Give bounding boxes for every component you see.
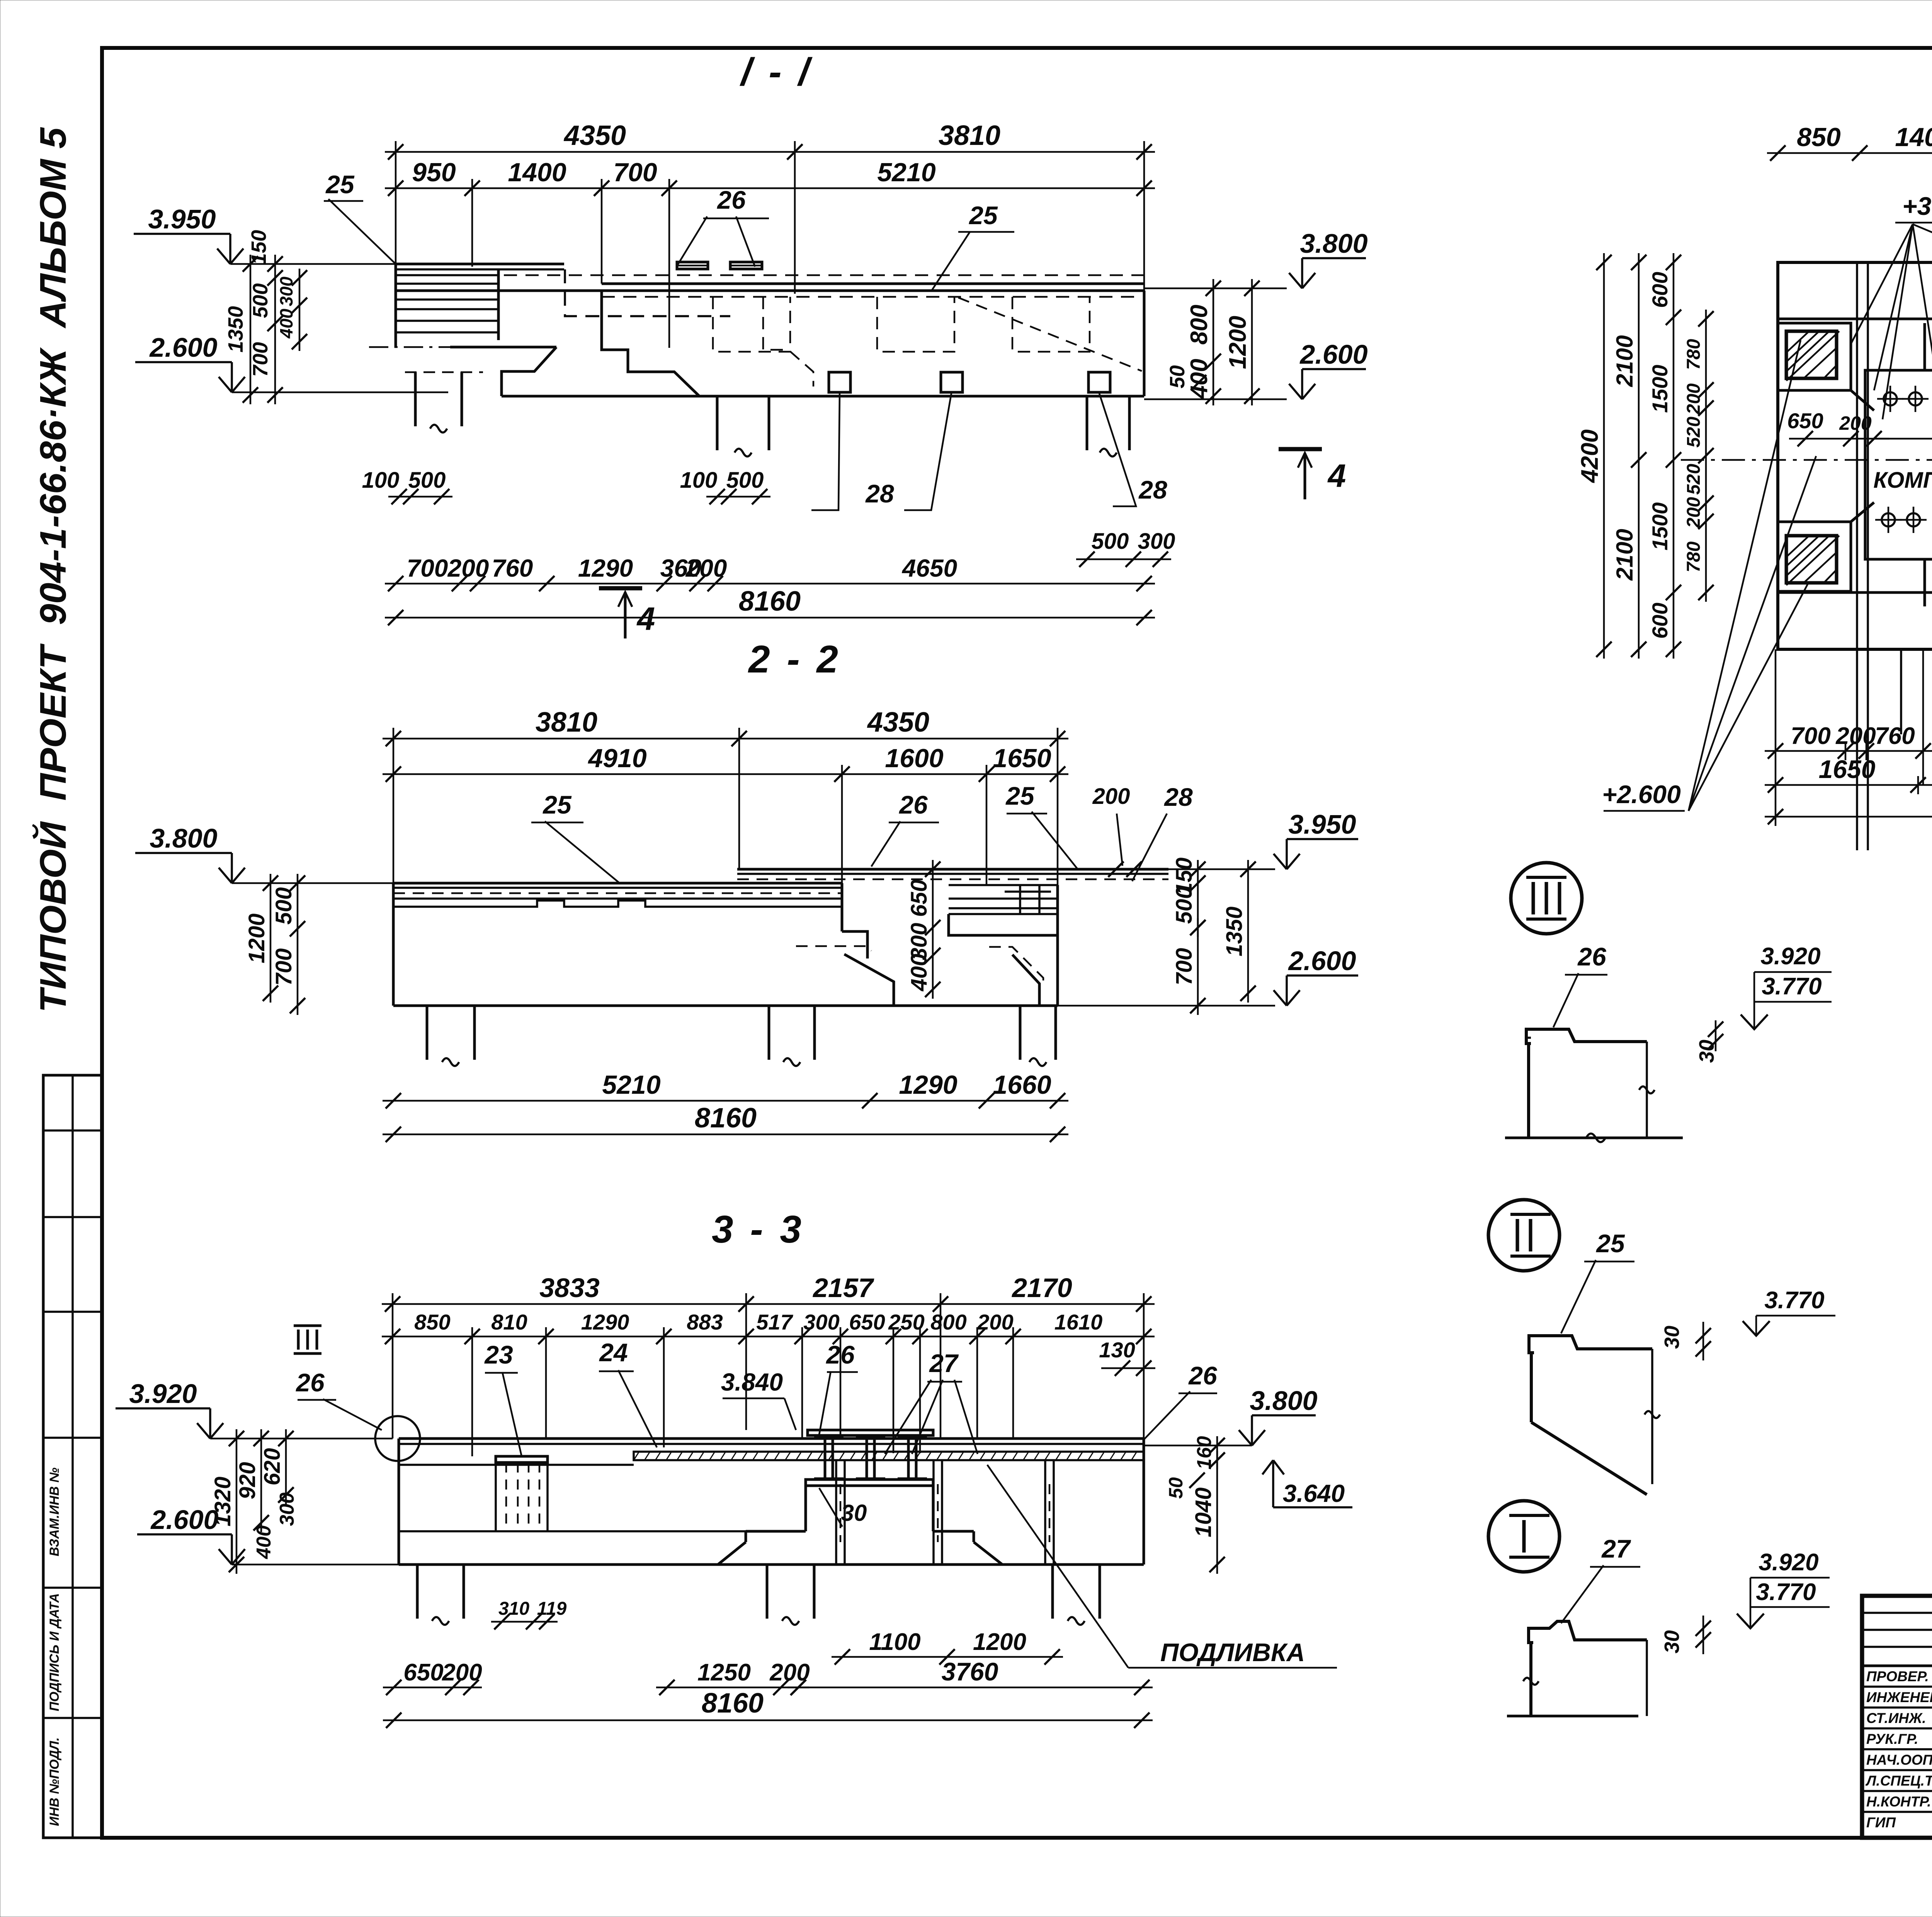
svg-text:780: 780: [1684, 339, 1704, 370]
section 1-1 vdim left 150/500/700: [274, 255, 276, 404]
section 2-2 left vdim 1200: [270, 874, 272, 1003]
svg-text:25: 25: [968, 201, 998, 230]
svg-text:26: 26: [1188, 1361, 1218, 1390]
svg-text:24: 24: [599, 1338, 628, 1367]
section 2-2 leg left: [426, 1006, 429, 1060]
section 1-1 cut mark 4 left: [599, 586, 642, 591]
svg-text:100: 100: [362, 468, 400, 493]
section 2-2 left slab top b: [393, 887, 842, 889]
svg-text:150: 150: [247, 230, 270, 265]
svg-text:1200: 1200: [973, 1629, 1026, 1655]
svg-text:300: 300: [276, 1493, 298, 1526]
svg-text:620: 620: [260, 1448, 285, 1486]
section 4-4 left vdim 4200: [1603, 253, 1605, 659]
section 4-4 top dim row A: [1767, 152, 1932, 154]
svg-text:520: 520: [1684, 464, 1704, 495]
svg-text:700: 700: [1791, 723, 1830, 749]
svg-text:1290: 1290: [581, 1310, 629, 1334]
section 3-3 ext lines: [392, 1293, 394, 1439]
detail III right vertical: [1646, 1042, 1648, 1138]
svg-text:400: 400: [253, 1525, 275, 1559]
detail I profile: [1529, 1621, 1647, 1643]
section 2-2 ext right: [1057, 728, 1059, 885]
svg-text:23: 23: [484, 1340, 513, 1369]
section 1-1 dim row 950/1400/700/5210: [385, 187, 1155, 189]
svg-text:25: 25: [542, 790, 572, 819]
section 2-2 center pier chamfer solid: [844, 954, 894, 1006]
svg-text:ГИП: ГИП: [1866, 1815, 1896, 1830]
svg-text:25: 25: [325, 170, 355, 199]
section 3-3 dim row 1250/200: [656, 1687, 809, 1689]
svg-text:Л.СПЕЦ.Т.О: Л.СПЕЦ.Т.О: [1865, 1773, 1932, 1789]
section 2-2 right chamfer solid: [1012, 955, 1039, 1006]
svg-text:3.770: 3.770: [1756, 1579, 1816, 1605]
section 2-2 left block interior line: [393, 901, 842, 907]
section 2-2 right level line: [1168, 868, 1275, 870]
svg-text:3810: 3810: [536, 707, 597, 738]
section 3-3 dim row 3760: [787, 1687, 1153, 1689]
svg-text:200: 200: [1684, 497, 1704, 528]
section 2-2 right vdim 700: [1197, 918, 1199, 1015]
detail II profile left slope: [1530, 1353, 1533, 1422]
section 1-1 slab line 734: [602, 283, 1144, 285]
section 2-2 right slab top b: [737, 873, 1168, 875]
section 1-1 ext line 1557: [601, 179, 603, 284]
section 2-2 right slab dashed: [737, 878, 1168, 880]
svg-text:200: 200: [977, 1310, 1013, 1334]
section 4-4 left vdim 2100/2100: [1638, 253, 1640, 659]
title block signature row line 7: [1862, 1811, 1932, 1813]
section 2-2 right block slab pad lines: [949, 884, 1058, 886]
svg-text:650: 650: [1787, 409, 1823, 433]
section 2-2 right block outline: [949, 914, 1058, 935]
svg-text:3760: 3760: [942, 1657, 998, 1686]
title block outer box: [1862, 1596, 1932, 1838]
svg-text:1200: 1200: [1225, 316, 1251, 369]
left margin strip row line 6: [43, 1717, 102, 1719]
left margin stamp strip outer: [43, 1075, 102, 1838]
section 1-1 pier hatch line 3: [396, 289, 498, 292]
section 3-3 level 3.920 left: [197, 1423, 210, 1439]
svg-text:1610: 1610: [1054, 1310, 1103, 1334]
section 3-3 right edge: [1143, 1439, 1145, 1565]
section 3-3 I-beams: [814, 1435, 844, 1438]
svg-text:517: 517: [756, 1310, 793, 1334]
svg-text:26: 26: [716, 186, 746, 214]
svg-text:1290: 1290: [899, 1070, 957, 1100]
svg-text:1350: 1350: [1222, 906, 1247, 956]
svg-text:ИНВ №ПОДЛ.: ИНВ №ПОДЛ.: [47, 1737, 62, 1826]
section 1-1 vdim left 1350: [250, 255, 252, 404]
section 1-1 vdim right 1200: [1251, 279, 1253, 405]
section 2-2 ext 1913: [738, 728, 740, 869]
svg-text:3.640: 3.640: [1283, 1479, 1345, 1507]
section 1-1 pier dashdot base: [369, 346, 450, 348]
section 1-1 pier hatch line 5: [396, 308, 498, 310]
section 4-4 bolt circle 3: [1882, 513, 1895, 526]
section 2-2 right vdim 1350: [1247, 860, 1249, 1003]
svg-text:883: 883: [687, 1310, 723, 1334]
svg-text:1320: 1320: [210, 1476, 235, 1526]
section 2-2 left slab line c: [393, 897, 842, 900]
svg-text:28: 28: [1138, 475, 1167, 504]
section 2-2 left block left edge: [392, 883, 395, 1006]
svg-text:300: 300: [803, 1310, 839, 1334]
section 4-4 +2.600 leaders: [1689, 583, 1808, 811]
svg-text:310: 310: [498, 1599, 529, 1619]
svg-text:5210: 5210: [877, 158, 935, 187]
section 1-1 ext line 1732: [668, 179, 670, 348]
svg-text:100: 100: [680, 468, 718, 493]
section 2-2 left level line: [232, 882, 393, 884]
section 2-2 left block inner vertical: [841, 883, 844, 931]
svg-text:4350: 4350: [867, 707, 929, 738]
section 2-2 ext left: [393, 728, 395, 883]
section 3-3 right vdim 1040: [1216, 1451, 1218, 1574]
section 1-1 vdim right 800/400: [1213, 279, 1214, 405]
section 1-1 ext line left: [395, 141, 397, 264]
svg-text:1400: 1400: [508, 158, 566, 187]
svg-text:1600: 1600: [885, 744, 943, 773]
svg-text:4650: 4650: [901, 554, 957, 582]
section 3-3 small dim 310/119: [491, 1621, 558, 1623]
svg-text:2170: 2170: [1011, 1273, 1072, 1303]
svg-text:РУК.ГР.: РУК.ГР.: [1866, 1731, 1918, 1747]
detail I left edge: [1529, 1643, 1532, 1716]
svg-text:Н.КОНТР.: Н.КОНТР.: [1866, 1794, 1931, 1810]
section 2-2 bottom line: [393, 1004, 1058, 1007]
svg-text:700: 700: [1172, 948, 1197, 986]
svg-text:1350: 1350: [224, 306, 247, 352]
section 2-2 left level 3.800: [219, 868, 232, 883]
svg-text:2 - 2: 2 - 2: [748, 638, 841, 681]
svg-text:850: 850: [1797, 123, 1841, 152]
section 4-4 bottom dim row C: [1765, 816, 1932, 818]
section 3-3 leg mid: [766, 1565, 769, 1619]
svg-text:200: 200: [1839, 412, 1872, 434]
section 3-3 under-slab line: [399, 1464, 634, 1466]
section 2-2 right vdim 150/500: [1197, 860, 1199, 937]
svg-text:ПРОВЕР.: ПРОВЕР.: [1866, 1668, 1929, 1684]
section 4-4 bolt circle 1: [1884, 392, 1897, 405]
svg-text:28: 28: [1163, 783, 1193, 811]
title block signature row line 4: [1862, 1748, 1932, 1750]
section 2-2 bottom dim row A: [383, 1100, 1068, 1102]
section 4-4 pocket TL: [1778, 323, 1851, 390]
section 4-4 ext lines bottom: [1775, 649, 1777, 826]
svg-text:3.840: 3.840: [721, 1368, 783, 1396]
section 1-1 leg right: [1086, 396, 1088, 450]
section 1-1 cut mark 4 right: [1279, 447, 1322, 451]
svg-text:2157: 2157: [812, 1273, 874, 1303]
section 3-3 left pier sides: [495, 1462, 497, 1531]
section 1-1 ext line mid: [794, 141, 796, 294]
section 1-1 ext line 1222: [471, 179, 473, 267]
section 4-4 pocket BL: [1778, 522, 1851, 591]
section 1-1 anchor square 2: [941, 372, 963, 392]
section 3-3 dim row 8160: [383, 1720, 1153, 1721]
section 1-1 dashed pocket 1: [713, 297, 790, 352]
svg-text:500: 500: [1092, 529, 1129, 554]
svg-text:4: 4: [636, 601, 655, 637]
section 1-1 dashed adjacent outline: [565, 269, 730, 316]
section 2-2 right chamfer dashed: [989, 947, 1043, 987]
section 1-1 vdim left 300/400: [299, 269, 301, 351]
svg-text:1200: 1200: [244, 913, 269, 963]
svg-text:200: 200: [447, 554, 489, 582]
section 3-3 left vdims: [236, 1429, 238, 1574]
section 1-1 leg left: [414, 372, 417, 426]
section 4-4 compressor axis: [1681, 459, 1932, 461]
section 4-4 bottom dim row A: [1765, 750, 1932, 752]
svg-text:27: 27: [1601, 1534, 1631, 1563]
svg-text:600: 600: [1648, 272, 1672, 308]
svg-text:30: 30: [1660, 1630, 1684, 1653]
svg-text:30: 30: [841, 1500, 867, 1526]
svg-text:+2.600: +2.600: [1602, 780, 1681, 809]
svg-text:28: 28: [865, 479, 894, 508]
section 2-2 top dim row A: [383, 738, 1068, 740]
section 4-4 center column lines: [1856, 262, 1858, 850]
svg-text:27: 27: [929, 1349, 959, 1377]
section 4-4 bolt circle 4: [1907, 513, 1920, 526]
section 1-1 pier hatch line 1: [396, 274, 498, 276]
svg-text:200: 200: [1684, 383, 1704, 415]
section 3-3 level 2.600 left: [219, 1549, 232, 1565]
svg-text:200: 200: [442, 1659, 482, 1686]
section 4-4 bottom dim row B: [1765, 784, 1932, 786]
detail I bottom: [1507, 1715, 1638, 1718]
section 4-4 plan band bottom line: [1778, 591, 1932, 594]
section 3-3 dim row 650/200: [383, 1687, 482, 1689]
svg-text:700: 700: [249, 342, 272, 377]
svg-text:3.800: 3.800: [1300, 228, 1367, 259]
svg-text:+3.000: +3.000: [1902, 192, 1932, 220]
section 1-1 slab dashed line 1: [396, 274, 1144, 276]
section 4-4 lower band legs: [1900, 649, 1902, 734]
section 1-1 level line 2.600: [1144, 398, 1287, 400]
section 1-1 slab top line left b: [396, 268, 564, 271]
svg-text:500: 500: [1172, 887, 1197, 924]
section 4-4 plan outer rect: [1778, 262, 1932, 649]
left margin strip row line 1: [43, 1129, 102, 1132]
section 1-1 left pier left edge: [395, 264, 397, 348]
svg-text:3.920: 3.920: [129, 1379, 197, 1409]
section 4-4 central pocket top: [1925, 323, 1932, 370]
section 1-1 outline chamfer: [502, 347, 556, 396]
svg-text:ПОДЛИВКА: ПОДЛИВКА: [1160, 1638, 1305, 1667]
section 3-3 leg left: [416, 1565, 419, 1619]
section 1-1 slab diagonal dashed: [958, 298, 1142, 371]
section 2-2 center dashed chamfer: [796, 946, 871, 951]
section 2-2 ext 2553: [986, 765, 988, 885]
section 2-2 leg right: [1019, 1006, 1022, 1060]
section 3-3 left pier dashed verticals: [505, 1462, 507, 1531]
section 1-1 pier hatch line 7: [396, 331, 498, 334]
svg-text:3.800: 3.800: [150, 823, 217, 853]
section 1-1 outline step A: [450, 346, 556, 349]
section 2-2 bottom dim row B: [383, 1134, 1068, 1136]
section 4-4 hatched square TL: [1786, 331, 1837, 378]
svg-text:ПОДПИСЬ И ДАТА: ПОДПИСЬ И ДАТА: [47, 1593, 62, 1711]
section 1-1 left pier right edge: [497, 269, 500, 340]
svg-text:1250: 1250: [697, 1659, 751, 1686]
section 1-1 pier hatch line 6: [396, 320, 498, 322]
svg-text:8160: 8160: [702, 1688, 764, 1719]
section 2-2 left slab dashed: [393, 892, 842, 894]
section 2-2 left vdim 500/700: [297, 874, 299, 1015]
svg-text:ТИПОВОЙ ПРОЕКТ 904-1-66.86·К: ТИПОВОЙ ПРОЕКТ 904-1-66.86·КЖ АЛЬБОМ 5: [32, 127, 74, 1013]
svg-text:2.600: 2.600: [150, 1505, 218, 1535]
svg-text:4200: 4200: [1577, 429, 1603, 484]
svg-text:500: 500: [726, 468, 764, 493]
title block signature row line 6: [1862, 1790, 1932, 1792]
section 1-1 slab line 752: [396, 289, 1144, 292]
left margin strip row line 2: [43, 1216, 102, 1218]
section 4-4 central pocket bottom: [1925, 559, 1932, 606]
section 1-1 bottom dim row A: [385, 583, 1155, 585]
svg-text:300: 300: [1138, 529, 1175, 554]
svg-text:700: 700: [407, 554, 448, 582]
detail I circle: [1488, 1501, 1560, 1572]
section 1-1 level 2.600 left: [219, 377, 232, 392]
svg-text:ИНЖЕНЕР: ИНЖЕНЕР: [1866, 1689, 1932, 1705]
detail II profile: [1529, 1336, 1652, 1353]
section 1-1 leg mid dims: [706, 496, 770, 498]
svg-text:1290: 1290: [578, 554, 633, 582]
section 1-1 level line 2.600 left: [232, 392, 448, 393]
section 3-3 pedestal: [804, 1486, 807, 1531]
left margin strip divider vertical: [71, 1075, 74, 1838]
title block signature row line 5: [1862, 1769, 1932, 1771]
section 3-3 top dim row A: [382, 1303, 1155, 1305]
svg-text:3.950: 3.950: [148, 204, 216, 234]
section 2-2 left slab top a: [393, 882, 842, 885]
svg-text:2.600: 2.600: [149, 332, 217, 363]
svg-text:4350: 4350: [563, 120, 626, 151]
section 1-1 bottom dim row B: [385, 617, 1155, 619]
svg-text:650: 650: [403, 1659, 443, 1686]
svg-text:3.770: 3.770: [1764, 1287, 1824, 1314]
section 3-3 posts: [835, 1460, 837, 1565]
section 4-4 hatched square BL: [1786, 536, 1837, 583]
detail III bottom line: [1505, 1137, 1683, 1139]
svg-text:400: 400: [1186, 359, 1213, 399]
title block signature row line 3: [1862, 1727, 1932, 1730]
svg-text:8160: 8160: [739, 586, 801, 617]
svg-text:1500: 1500: [1648, 365, 1672, 413]
svg-text:850: 850: [414, 1310, 450, 1334]
title block signature row line 1: [1862, 1685, 1932, 1688]
svg-text:3.800: 3.800: [1250, 1386, 1317, 1416]
section 4-4 +3.000 leaders: [1851, 224, 1913, 344]
svg-text:400: 400: [906, 954, 932, 992]
svg-text:700: 700: [613, 158, 657, 187]
section 3-3 interior line 3962: [399, 1530, 804, 1532]
section 3-3 right vdim 160: [1216, 1436, 1218, 1469]
left margin strip row line 5: [43, 1587, 102, 1589]
section 3-3 left block edge: [398, 1439, 400, 1565]
svg-text:/ - /: / - /: [740, 50, 813, 94]
section 1-1 pier hatch line 4: [396, 298, 498, 301]
svg-text:200: 200: [685, 554, 727, 582]
svg-text:СТ.ИНЖ.: СТ.ИНЖ.: [1866, 1710, 1926, 1726]
section 3-3 right level line: [1144, 1445, 1252, 1447]
svg-text:1040: 1040: [1191, 1487, 1216, 1537]
svg-text:780: 780: [1684, 541, 1704, 572]
section 3-3 leg right: [1051, 1565, 1054, 1619]
svg-text:26: 26: [825, 1340, 855, 1369]
svg-text:760: 760: [492, 554, 533, 582]
section 1-1 leg mid: [716, 396, 719, 450]
svg-text:950: 950: [412, 158, 456, 187]
section 2-2 leg mid: [768, 1006, 770, 1060]
section 3-3 machine base plate: [806, 1479, 933, 1486]
svg-text:3.770: 3.770: [1762, 973, 1821, 1000]
svg-text:300: 300: [276, 276, 296, 306]
section 1-1 right edge ext: [1143, 141, 1145, 396]
section 1-1 dashed pocket 2: [877, 297, 954, 352]
section 1-1 anchor square 3: [1088, 372, 1110, 392]
svg-text:130: 130: [1099, 1338, 1135, 1362]
section 1-1 pier hatch line 2: [396, 283, 498, 285]
section 3-3 podlivka hatched strip: [634, 1452, 1144, 1460]
section 4-4 central opening: [1865, 370, 1932, 559]
section 1-1 leg left dims: [388, 496, 452, 498]
section 1-1 slab pad 26 right: [730, 262, 762, 269]
svg-text:119: 119: [537, 1599, 567, 1619]
svg-text:25: 25: [1005, 781, 1035, 810]
svg-text:2100: 2100: [1612, 335, 1638, 387]
section 1-1 level 3.800 right: [1289, 273, 1302, 288]
section 2-2 right level line 2: [1058, 1005, 1275, 1007]
svg-text:3.920: 3.920: [1759, 1549, 1818, 1576]
section 1-1 slab top line left a: [396, 263, 564, 266]
svg-text:760: 760: [1875, 723, 1915, 749]
svg-text:50: 50: [1165, 1477, 1187, 1499]
section 3-3 dim row 1100/1200: [832, 1656, 1063, 1658]
detail I right vertical: [1646, 1640, 1648, 1716]
section 1-1 leg right dims: [1076, 558, 1171, 560]
svg-text:3.950: 3.950: [1288, 809, 1356, 839]
svg-text:2.600: 2.600: [1299, 339, 1367, 369]
svg-text:200: 200: [1835, 723, 1876, 749]
section 2-2 center vdim 650/300/400: [932, 860, 934, 999]
detail III profile left edge: [1527, 1044, 1530, 1138]
title block row line above signatures: [1862, 1665, 1932, 1667]
svg-text:800: 800: [1186, 305, 1213, 344]
title block narrow row line 2: [1862, 1629, 1932, 1631]
title block narrow row line 3: [1862, 1646, 1932, 1648]
section 4-4 plan band top line: [1778, 318, 1932, 320]
svg-text:4910: 4910: [587, 744, 646, 773]
svg-text:800: 800: [930, 1310, 966, 1334]
svg-text:500: 500: [408, 468, 446, 493]
section 3-3 left pier top plate: [496, 1456, 548, 1462]
section 2-2 right level 2.600: [1274, 990, 1287, 1006]
section 3-3 bottom line: [399, 1563, 1144, 1566]
section 1-1 level line 3.950 left: [230, 263, 396, 265]
section 2-2 top dim row B: [383, 773, 1068, 775]
section 3-3 detail circle III: [375, 1416, 420, 1461]
svg-text:700: 700: [271, 948, 296, 986]
detail II right vertical: [1651, 1349, 1653, 1484]
svg-text:25: 25: [1595, 1229, 1625, 1258]
section 3-3 level line 2.600: [232, 1564, 399, 1566]
section 3-3 pedestal chamfers: [718, 1542, 746, 1565]
svg-text:3.920: 3.920: [1760, 943, 1820, 970]
section 3-3 right level 3.800: [1239, 1430, 1252, 1445]
